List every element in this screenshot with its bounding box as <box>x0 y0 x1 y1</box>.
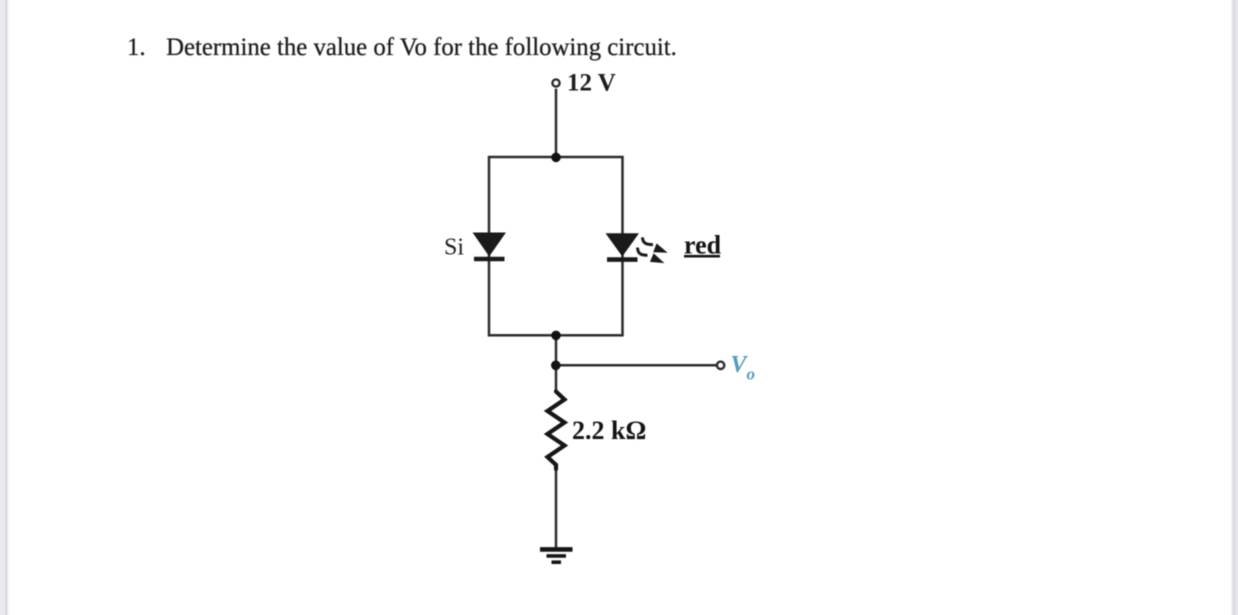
svg-text:12 V: 12 V <box>567 70 616 97</box>
wire resistor to ground <box>555 468 558 549</box>
right page margin bar <box>1230 0 1238 615</box>
node junction top <box>551 153 561 163</box>
diode D1 Si triangle <box>474 233 506 256</box>
terminal Vo circle <box>717 362 724 369</box>
resistor R1 zigzag <box>548 392 565 470</box>
svg-text:o: o <box>747 365 756 384</box>
svg-text:Si: Si <box>444 235 464 261</box>
ground symbol <box>540 547 573 552</box>
left page margin bar <box>0 0 10 615</box>
LED D2 triangle <box>607 234 639 256</box>
wire bottom rail to resistor <box>555 335 558 392</box>
node junction Vo tap <box>551 361 561 371</box>
svg-text:2.2 kΩ: 2.2 kΩ <box>572 416 646 445</box>
diode D1 cathode bar <box>474 257 505 261</box>
supply terminal 12V <box>552 79 559 86</box>
problem statement text <box>127 34 677 62</box>
LED emission arrow lower <box>638 248 648 256</box>
wire loop rectangle <box>489 157 623 335</box>
node junction bottom of loop <box>551 331 561 341</box>
LED emission arrow upper <box>642 237 653 244</box>
wire supply to top rail <box>555 89 558 157</box>
LED D2 cathode bar <box>607 257 638 262</box>
wire node to Vo terminal <box>556 364 717 367</box>
